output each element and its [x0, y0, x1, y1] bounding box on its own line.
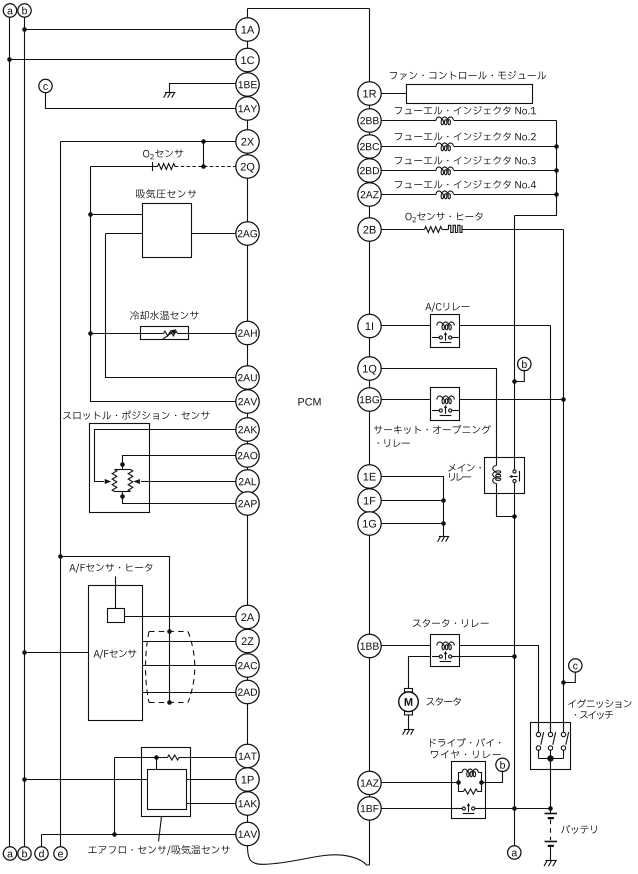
label fuel injector No.1 [395, 106, 536, 115]
node b mid [518, 357, 531, 370]
pin 2AG [236, 222, 259, 245]
wire starter switch right [460, 656, 515, 658]
drive-by-wire relay [452, 762, 486, 819]
node b bottom [18, 847, 31, 860]
wire row 1AT [115, 755, 236, 769]
wire rail B [561, 230, 566, 733]
label starter relay [413, 619, 489, 627]
wire row 1AK [187, 803, 236, 805]
pin 2AU [236, 366, 259, 389]
wire row 1A [25, 29, 236, 31]
pin 1AK [236, 792, 259, 815]
wire MAP signal [106, 233, 143, 235]
label fuel injector No.3 [395, 156, 536, 165]
wire row 1P [25, 779, 236, 781]
pin 1I [358, 314, 381, 337]
wire sensor ground rail [88, 167, 236, 402]
wire b to A/F sensor [25, 652, 89, 654]
wire 1R to module [381, 93, 406, 95]
airflow sensor outer box [142, 748, 191, 817]
MAP sensor box [143, 204, 192, 258]
pin 1BB [358, 634, 381, 657]
wire row 2Z [143, 641, 236, 643]
label circuit opening relay 2 [378, 439, 410, 447]
wire rail d [41, 835, 43, 848]
wire motor ground [408, 715, 410, 730]
label main relay 1 [448, 464, 481, 472]
wire row 2AC [143, 665, 236, 667]
pin 1E [358, 465, 381, 488]
wire 1F link [381, 500, 443, 502]
wire row 2AH [91, 333, 236, 335]
label A/C relay [425, 303, 469, 312]
starter relay [431, 635, 460, 667]
label throttle position sensor [63, 410, 209, 419]
wire row 2AL wiper [133, 479, 236, 484]
shield dashed [146, 632, 195, 703]
ground starter motor [403, 730, 415, 735]
wire row 1C [10, 59, 236, 61]
wire PCM left spine [247, 9, 249, 846]
fuel injector No.3 [381, 167, 556, 175]
label airflow sensor [88, 845, 229, 855]
pin 1AV [236, 822, 259, 845]
wire rail C [550, 326, 552, 733]
wire PCM right spine [369, 9, 371, 866]
wire 1AZ lead [381, 782, 458, 784]
label coolant temp sensor [130, 311, 199, 320]
wire row 1AY [46, 93, 236, 109]
wire 1G link [381, 523, 443, 525]
throttle sensor box [90, 424, 150, 513]
node d bottom [35, 847, 48, 860]
label A/F sensor heater [69, 563, 152, 573]
wire row 1BE [170, 84, 236, 93]
pin 2BC [358, 135, 381, 158]
intake air temp resistor [168, 755, 180, 760]
wire 2Q lead [91, 162, 158, 171]
pin 2X [236, 130, 259, 153]
wire relay to b [482, 771, 503, 783]
node c right [569, 659, 582, 672]
ground battery [544, 861, 557, 867]
starter motor [399, 689, 419, 715]
pin 1BF [358, 797, 381, 820]
wire 2B to rail B [462, 229, 564, 231]
wire c tap [564, 672, 576, 683]
O2 heater resistor [425, 227, 443, 233]
label battery [561, 825, 597, 834]
label PCM [298, 398, 320, 406]
wire top link 1A to 1R [248, 8, 370, 10]
label circuit opening relay 1 [374, 425, 491, 434]
ground 1BE [164, 93, 176, 98]
pin 1Q [358, 357, 381, 380]
label O2 sensor [143, 149, 183, 159]
wire 1BG out to rail B [460, 399, 564, 401]
wire row 2AD [143, 692, 236, 694]
wire row 2AP [123, 497, 236, 504]
node a bottom [3, 847, 16, 860]
A/F sensor box [89, 586, 143, 721]
main relay [485, 458, 525, 494]
label drive-by-wire relay 2 [431, 750, 501, 759]
throttle potentiometer [112, 465, 133, 499]
label A/F sensor [94, 650, 137, 659]
wire row 1AV [42, 834, 236, 836]
wire 1BB lead [381, 645, 430, 647]
wire main relay coil down [497, 494, 517, 519]
wire 1I lead [381, 325, 430, 327]
ignition switch [531, 723, 571, 814]
pin 2AD [236, 680, 259, 703]
wire rail a [7, 17, 12, 847]
pin 2Q [236, 155, 259, 178]
label drive-by-wire relay 1 [430, 738, 500, 747]
pin 1P [236, 768, 259, 791]
pin 2AC [236, 654, 259, 677]
wire b tap [512, 370, 524, 384]
pin 1F [358, 489, 381, 512]
airflow sensor inner box [148, 770, 187, 810]
pin 2Z [236, 629, 259, 652]
A/F heater element [108, 609, 125, 623]
wire heater leader [115, 577, 117, 609]
wire rail A [512, 216, 517, 847]
wire row 2AK wiper [95, 430, 236, 485]
wire rail b [22, 17, 27, 847]
wire row 2AG [192, 233, 236, 235]
pin 1AZ [358, 771, 381, 794]
pin 1AY [236, 97, 259, 120]
pin 2B [358, 218, 381, 241]
label ignition switch 1 [568, 699, 631, 708]
pin 2A [236, 605, 259, 628]
wire row 2X [61, 139, 236, 144]
label ignition switch 2 [575, 711, 613, 719]
wire 2X to 2Q tap [201, 142, 206, 169]
battery [545, 814, 558, 861]
wire 2Q dashed [175, 166, 236, 168]
pin 2AZ [358, 183, 381, 206]
node c top [39, 79, 52, 92]
wire 1BG lead [381, 399, 430, 401]
pin 1A [236, 18, 259, 41]
wire row 2AO [120, 456, 236, 467]
wire 1BF row [381, 806, 553, 811]
fuel injector No.4 [381, 191, 556, 199]
node b top [18, 4, 31, 17]
node a right [508, 846, 521, 859]
A/C relay [431, 315, 460, 348]
wire A/C relay out [460, 325, 551, 327]
pin 1G [358, 512, 381, 535]
wire heater mid [442, 229, 449, 231]
fan control module box [407, 85, 533, 104]
wire airflow leader [159, 817, 162, 842]
label fuel injector No.4 [395, 180, 536, 189]
pin 1C [236, 48, 259, 71]
pin 2BB [358, 109, 381, 132]
label fuel injector No.2 [395, 132, 536, 141]
label main relay 2 [449, 473, 471, 481]
pin 2AP [236, 492, 259, 515]
pin 2AL [236, 470, 259, 493]
wire injector collector [515, 121, 559, 216]
wire row 2A [125, 616, 236, 618]
wire rail e / shield drain [58, 142, 63, 848]
pin 2AH [236, 321, 259, 344]
node a top [3, 4, 16, 17]
wire shield drain branch [61, 557, 172, 705]
pin 1BE [236, 73, 259, 96]
wire starter switch left [409, 657, 431, 689]
label O2 sensor heater [405, 212, 482, 222]
label fan control module [390, 71, 546, 80]
coolant temp thermistor [141, 327, 189, 340]
wire MAP power [91, 214, 143, 216]
ground 1E1F1G [438, 537, 450, 542]
circuit opening relay [431, 388, 460, 421]
wire bottom crossover [248, 846, 370, 865]
pin 1R [358, 82, 381, 105]
pin 1AT [236, 744, 259, 767]
pin 2AK [236, 418, 259, 441]
fuel injector No.1 [381, 117, 556, 125]
wire 1E link [381, 477, 446, 537]
node b lower [496, 758, 509, 771]
wire 1Q link [381, 369, 496, 458]
label MAP sensor [136, 189, 196, 198]
pin 2BD [358, 159, 381, 182]
label starter [426, 697, 460, 705]
wire 2AU link [106, 234, 236, 378]
wire 1AT to 1AV link [112, 758, 117, 837]
pin 2AO [236, 444, 259, 467]
O2 heater element [449, 225, 463, 232]
node e bottom [54, 847, 67, 860]
O2 sensor resistor [158, 164, 176, 170]
pin 1BG [358, 388, 381, 411]
wire 2B lead [381, 229, 424, 231]
pin 2AV [236, 390, 259, 413]
fuel injector No.2 [381, 143, 556, 151]
wire starter relay coil out [460, 646, 539, 733]
